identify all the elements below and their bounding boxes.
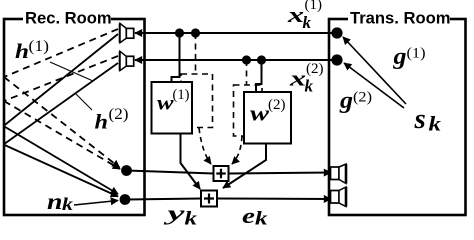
- solid input into w1 (jog): [172, 33, 180, 82]
- trans room mic dot d1: [331, 27, 342, 38]
- acoustic path h11 dashed: wall to mic1 arrow: [4, 77, 120, 168]
- w1' dashed output arrow to upper adder: [199, 128, 211, 164]
- Trans. Room box: [329, 19, 466, 215]
- acoustic path h12 solid: wall to mic2 arrow: [4, 126, 119, 194]
- acoustic path h22 solid: wall to mic2 arrow: [4, 145, 119, 197]
- svg-text:n: n: [47, 189, 63, 214]
- svg-text:g: g: [339, 88, 353, 114]
- wire x2 line with arrow into LS2: [135, 59, 337, 61]
- svg-text:y: y: [164, 203, 185, 225]
- acoustic path h21 dashed: wall to mic1 arrow: [4, 101, 120, 169]
- svg-text:x: x: [289, 66, 306, 91]
- acoustic path h11 dashed: speaker1 to wall: [4, 29, 118, 77]
- solid input into w2 (jog): [256, 60, 262, 92]
- node dot x1-a: [175, 28, 184, 37]
- label h1 leader: [50, 62, 93, 81]
- svg-text:k: k: [305, 77, 314, 96]
- loudspeaker RS2 (trans room bottom): [331, 187, 347, 207]
- adder lower (+): [201, 191, 217, 207]
- node dot x2-a: [242, 55, 251, 64]
- svg-text:(2): (2): [306, 61, 324, 77]
- filter box w2: [244, 92, 291, 144]
- svg-text:k: k: [185, 209, 198, 228]
- wire e1 line through upper adder: [127, 171, 214, 174]
- loudspeaker LS1 (rec room top): [120, 23, 134, 42]
- svg-text:(2): (2): [109, 106, 129, 123]
- svg-text:(1): (1): [305, 0, 323, 13]
- svg-text:k: k: [303, 13, 312, 32]
- nk arrow to mic2: [74, 201, 118, 206]
- svg-text:(1): (1): [29, 38, 50, 55]
- filter box w1: [152, 82, 193, 134]
- node dot x1-b: [191, 28, 200, 37]
- dashed copy box w2': [234, 85, 263, 136]
- svg-text:x: x: [287, 2, 304, 27]
- sk to mic d2 arrow: [344, 63, 404, 108]
- loudspeaker RS1 (trans room top): [331, 164, 347, 184]
- svg-text:k: k: [255, 209, 268, 228]
- loudspeaker LS2 (rec room bottom): [120, 51, 134, 70]
- trans room mic dot d2: [331, 54, 342, 65]
- dashed copy box w1': [181, 74, 213, 128]
- acoustic path h12 solid: speaker1 to wall: [4, 34, 119, 126]
- svg-text:(2): (2): [268, 97, 286, 113]
- label h2 leader: [76, 94, 92, 110]
- mic dot m2 (rec room): [120, 194, 131, 205]
- adder upper (+): [214, 166, 229, 181]
- mic dot m1 (rec room): [121, 165, 132, 176]
- acoustic path h22 solid: speaker2 to wall: [4, 63, 119, 145]
- Rec. Room box: [4, 19, 145, 215]
- w2 output arrow toward lower adder: [223, 144, 266, 189]
- wire yk line into lower adder: [125, 199, 201, 200]
- svg-text:h: h: [95, 110, 109, 134]
- svg-text:(1): (1): [173, 87, 190, 103]
- svg-text:(2): (2): [353, 90, 372, 106]
- svg-text:Trans. Room: Trans. Room: [350, 9, 451, 28]
- svg-text:k: k: [429, 112, 442, 136]
- Trans. Room title gap: [348, 12, 450, 25]
- sk to mic d1 arrow: [343, 37, 406, 104]
- svg-text:g: g: [392, 44, 406, 70]
- dashed input into w1': [195, 33, 197, 74]
- node dot x2-b: [257, 55, 266, 64]
- dashed input into w2': [246, 60, 248, 85]
- wire ek to trans speaker arrow: [217, 198, 331, 201]
- acoustic path h21 dashed: speaker2 to wall: [4, 56, 118, 101]
- svg-text:e: e: [242, 203, 255, 227]
- svg-text:h: h: [15, 39, 29, 63]
- svg-text:Rec. Room: Rec. Room: [25, 9, 112, 28]
- Rec. Room title gap: [23, 12, 111, 25]
- w1 output arrow to lower adder: [181, 134, 201, 190]
- svg-text:k: k: [62, 194, 73, 214]
- svg-text:w: w: [250, 101, 269, 126]
- svg-text:s: s: [414, 103, 426, 135]
- wire e1 to trans speaker arrow: [229, 173, 332, 174]
- w2' dashed output arrow to upper adder: [232, 136, 242, 164]
- svg-text:(1): (1): [407, 46, 426, 62]
- wire x1 line (top) with arrow into LS1: [135, 32, 337, 34]
